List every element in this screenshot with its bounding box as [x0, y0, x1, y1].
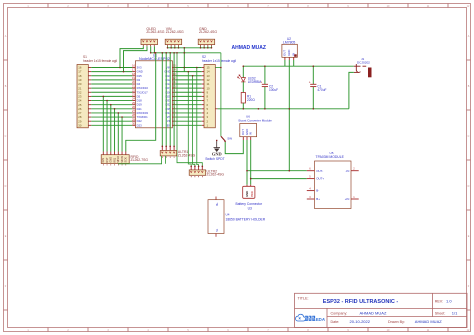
- title block frame: [295, 293, 468, 327]
- svg-text:OUT: OUT: [283, 50, 287, 56]
- svg-text:Company:: Company:: [331, 312, 348, 316]
- ground symbol at switch: [214, 141, 221, 152]
- connector ULTR2 pin numbers: [191, 176, 202, 177]
- connector OLED ZL262-4SG: [146, 27, 164, 34]
- svg-text:U4: U4: [226, 213, 230, 217]
- module U5 body: [315, 161, 352, 209]
- EasyEDA logo: [295, 314, 305, 321]
- capacitor C1 470uF: [312, 66, 314, 109]
- connector RFID pin names vertical: [101, 156, 128, 163]
- connector RFID pin marks: [103, 164, 126, 165]
- module U1 left pin names: [137, 66, 149, 128]
- svg-text:1: 1: [353, 195, 355, 199]
- svg-text:D: D: [468, 185, 470, 188]
- svg-text:3: 3: [309, 195, 311, 199]
- svg-text:Drawn By:: Drawn By:: [388, 320, 405, 324]
- svg-text:LEDRBM: LEDRBM: [248, 80, 262, 84]
- module U5 TPA03M MODULE label: [316, 151, 345, 159]
- svg-text:B+: B+: [316, 197, 320, 201]
- connector ULTR2 pin stubs: [191, 166, 202, 170]
- svg-text:4: 4: [309, 187, 311, 191]
- regulator U2 body: [282, 44, 297, 57]
- connector S2 body: [204, 65, 215, 128]
- svg-text:220Ω: 220Ω: [247, 98, 255, 102]
- svg-text:SCK: SCK: [124, 157, 128, 163]
- wire bus B horizontal: [151, 52, 221, 54]
- svg-text:VCC: VCC: [250, 191, 254, 197]
- battery holder U4 top stub: [215, 197, 217, 200]
- module U5 left pins: [307, 171, 315, 199]
- wire LM7805 GND down to amplifier OUT-: [288, 60, 290, 171]
- svg-text:D23: D23: [137, 123, 143, 127]
- connector S1 body: [77, 65, 88, 128]
- connector RFID pin stubs: [103, 152, 126, 155]
- svg-text:30: 30: [78, 123, 82, 127]
- wire LM7805 OUT and IN to rail: [285, 60, 294, 171]
- svg-text:+: +: [260, 80, 262, 84]
- svg-text:Boost Converter Module: Boost Converter Module: [239, 119, 273, 123]
- svg-text:100uF: 100uF: [269, 88, 278, 92]
- resistor R1 220: [241, 93, 245, 104]
- wire OLED pin4 drop: [153, 46, 155, 53]
- connector RFID body: [101, 155, 129, 164]
- battery holder U4 label: [226, 213, 266, 222]
- svg-text:-IN: -IN: [345, 169, 349, 173]
- title block texts: [298, 297, 446, 324]
- svg-text:GND: GND: [245, 191, 249, 197]
- svg-text:E: E: [468, 235, 470, 238]
- connector U3 battery connector stubs: [247, 185, 251, 187]
- connector S1 header 1x15 female label: [83, 55, 117, 63]
- module U1 left pin numbers: [132, 64, 136, 126]
- svg-text:RST: RST: [105, 157, 109, 163]
- svg-text:ZL262-7SG: ZL262-7SG: [131, 158, 149, 162]
- connector S2 pin numbers 15-1: [207, 66, 211, 128]
- svg-text:GND: GND: [109, 157, 113, 163]
- connector ULTR1 pin numbers: [162, 157, 174, 158]
- svg-text:A: A: [5, 35, 7, 38]
- svg-text:D: D: [5, 185, 7, 188]
- junction dots: [103, 47, 315, 179]
- wire top power rail: [243, 65, 353, 67]
- svg-text:ZL262-4SG: ZL262-4SG: [178, 154, 196, 158]
- connector ULTR2 ZL262-4SG label: [207, 169, 225, 176]
- svg-text:IN: IN: [249, 132, 253, 135]
- module U6 body: [240, 124, 257, 137]
- connector ULTR2 pin marks: [190, 171, 203, 173]
- svg-text:Sheet:: Sheet:: [435, 312, 446, 316]
- module U1 right pin numbers: [173, 64, 177, 126]
- connector ULTR1 pin stubs: [162, 146, 174, 150]
- wire rows U1 to S2: [175, 68, 201, 126]
- svg-text:1/1: 1/1: [452, 311, 458, 316]
- wire S2 stub to ground rail: [215, 108, 217, 110]
- wire busB to RFID pin7 staircase: [126, 53, 156, 152]
- svg-text:B-: B-: [316, 189, 319, 193]
- svg-text:2: 2: [353, 167, 355, 171]
- connector ULTR1 ZL262-4SG label: [178, 150, 196, 157]
- svg-text:U3: U3: [248, 207, 252, 211]
- svg-text:MISO: MISO: [116, 156, 120, 163]
- connector S1 pin stubs: [88, 68, 91, 126]
- svg-text:DCJ0202: DCJ0202: [357, 61, 370, 65]
- svg-text:18650 BATTERY HOLDER: 18650 BATTERY HOLDER: [226, 217, 266, 221]
- wire bus A drop to rows: [183, 48, 185, 72]
- wire GND pins drop: [201, 46, 212, 48]
- LED LED2 LEDRBM: [238, 66, 246, 82]
- svg-text:header 1x15 female agil: header 1x15 female agil: [202, 59, 236, 63]
- svg-text:Battery Connector: Battery Connector: [236, 202, 263, 206]
- svg-text:C: C: [468, 135, 470, 138]
- module U5 right pins: [351, 171, 359, 199]
- connector ULTR2 body: [189, 170, 206, 175]
- wire LED2 to R1: [242, 82, 244, 93]
- connector RFID ZL262-7SG label: [131, 155, 149, 162]
- svg-text:REV:: REV:: [435, 300, 443, 304]
- svg-text:GND: GND: [287, 50, 291, 56]
- module U1 body: [135, 61, 172, 128]
- svg-text:F: F: [468, 285, 470, 288]
- svg-text:ZL262-4SG: ZL262-4SG: [166, 30, 184, 34]
- svg-text:20-10-2022: 20-10-2022: [350, 319, 371, 324]
- svg-text:3V3: 3V3: [101, 157, 105, 162]
- connector ULTR1 body: [160, 151, 177, 156]
- connector J1 DCJ0202 label: [357, 57, 370, 64]
- wire U6 IN to battery: [250, 140, 252, 185]
- wire J1 ground to rail: [349, 72, 354, 108]
- wire OUT- to amplifier: [247, 170, 307, 172]
- svg-text:OUT+: OUT+: [316, 177, 324, 181]
- svg-text:AHMAD MUAZ: AHMAD MUAZ: [360, 311, 387, 316]
- svg-text:B: B: [5, 85, 7, 88]
- wire OLED pin3 drop: [150, 46, 152, 53]
- capacitor C2 100uF: [264, 66, 266, 109]
- svg-text:M+: M+: [215, 202, 219, 206]
- module U6 boost converter label: [239, 115, 273, 123]
- connector U3 battery connector body: [243, 186, 255, 198]
- module U1 left pin stubs: [132, 68, 135, 126]
- svg-text:ZL262-4SG: ZL262-4SG: [199, 30, 217, 34]
- svg-text:C: C: [5, 135, 7, 138]
- connector VIN ZL262-4SG: [166, 27, 184, 34]
- battery holder U4 bottom stub: [215, 234, 217, 237]
- wire bottom ground rail: [218, 108, 349, 110]
- svg-text:ZL262-4SG: ZL262-4SG: [207, 173, 225, 177]
- connector ULTR1 pin marks: [161, 152, 175, 154]
- svg-text:EDA: EDA: [316, 317, 325, 322]
- svg-text:IRQ: IRQ: [112, 158, 116, 163]
- svg-text:1.0: 1.0: [446, 299, 452, 304]
- wire OLED pin1 to row16: [120, 46, 143, 67]
- wire bus A horizontal: [168, 47, 212, 49]
- svg-text:header 1x15 female agil: header 1x15 female agil: [83, 59, 117, 63]
- connector S1 pin numbers 16-30: [78, 66, 82, 128]
- wire U6 GND to battery: [246, 140, 248, 185]
- svg-text:AHMAD MUAZ: AHMAD MUAZ: [415, 319, 442, 324]
- connector GND ZL262-4SG: [199, 27, 217, 34]
- svg-text:E: E: [5, 235, 7, 238]
- svg-text:MOSI: MOSI: [120, 156, 124, 163]
- regulator U2 LM7805 label: [283, 37, 295, 45]
- module U5 pin names: [316, 169, 324, 201]
- wire OUT+ to amplifier: [251, 178, 307, 180]
- regulator U2 pin stubs: [285, 57, 294, 60]
- module U1 NodeMCU-ESP32 label: [139, 54, 170, 62]
- svg-text:F: F: [5, 285, 7, 288]
- svg-text:Date:: Date:: [331, 320, 340, 324]
- svg-text:ESP32 - RFID ULTRASONIC -: ESP32 - RFID ULTRASONIC -: [323, 299, 399, 305]
- connector S2 header 1x15 female label: [202, 55, 236, 63]
- wire verticals busB to ULTR1 pins: [162, 53, 174, 147]
- svg-text:+IN: +IN: [345, 197, 350, 201]
- svg-text:B: B: [468, 85, 470, 88]
- svg-text:470uF: 470uF: [317, 88, 326, 92]
- svg-text:TPA03M MODULE: TPA03M MODULE: [316, 155, 345, 159]
- svg-text:Switch SPDT: Switch SPDT: [205, 157, 224, 161]
- wire switch to boost converter: [225, 140, 243, 154]
- battery holder U4 body: [208, 200, 224, 234]
- wire S2 pin15 to switch: [215, 53, 221, 136]
- svg-text:GND: GND: [212, 151, 222, 156]
- wire VIN pins drop: [168, 46, 179, 48]
- switch SW SPDT: [216, 136, 226, 142]
- svg-text:30: 30: [132, 121, 136, 125]
- svg-text:OUT-: OUT-: [316, 169, 323, 173]
- wire OLED pin2 to row17: [124, 46, 148, 71]
- wire below ULTR1: [118, 156, 166, 164]
- svg-text:ZL262-4SG: ZL262-4SG: [146, 30, 164, 34]
- connector S2 pin stubs: [202, 68, 204, 126]
- connector U3 label: [236, 202, 263, 211]
- svg-text:A: A: [468, 35, 470, 38]
- wire R1 to ground rail: [242, 103, 244, 109]
- module U1 right pin stubs: [172, 68, 175, 126]
- svg-text:TITLE:: TITLE:: [298, 297, 309, 301]
- svg-text:5: 5: [309, 175, 311, 179]
- svg-text:M-: M-: [215, 229, 219, 232]
- wire verticals to ULTR2 pins: [177, 53, 202, 167]
- svg-text:+: +: [309, 80, 311, 84]
- module U6 pin stubs: [243, 137, 250, 140]
- svg-text:SW: SW: [227, 137, 232, 141]
- connector J1 DCJ0202 body: [354, 64, 366, 72]
- svg-text:12: 12: [467, 5, 470, 8]
- svg-text:6: 6: [309, 167, 311, 171]
- module U5 pin numbers: [309, 167, 355, 199]
- wire rows S1 to U1: [91, 68, 132, 126]
- wire verticals rows to RFID pins: [103, 96, 122, 151]
- module U1 right pin names: [164, 66, 171, 128]
- svg-text:AHMAD MUAZ: AHMAD MUAZ: [232, 45, 266, 51]
